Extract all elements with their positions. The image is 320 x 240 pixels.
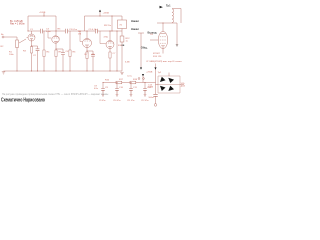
svg-text:С10 47м: С10 47м bbox=[113, 100, 121, 102]
svg-text:Rвх = 1 МОм: Rвх = 1 МОм bbox=[10, 23, 25, 26]
svg-text:R14 120: R14 120 bbox=[153, 56, 162, 58]
svg-text:Д226: Д226 bbox=[181, 86, 185, 88]
svg-text:Тр1: Тр1 bbox=[166, 4, 171, 8]
svg-text:100м: 100м bbox=[148, 97, 154, 99]
svg-text:R9 15к: R9 15к bbox=[104, 25, 111, 27]
svg-text:6,3В: 6,3В bbox=[125, 61, 130, 63]
svg-text:1М: 1М bbox=[78, 33, 81, 35]
svg-text:С12 47м: С12 47м bbox=[141, 100, 149, 102]
svg-text:На рисунке приведена принципиа: На рисунке приведена принципиальная схем… bbox=[2, 93, 108, 96]
svg-text:+185В: +185В bbox=[39, 12, 46, 14]
svg-text:0В: 0В bbox=[122, 45, 125, 47]
svg-text:С3 0,1м: С3 0,1м bbox=[69, 29, 77, 31]
svg-text:С11 47м: С11 47м bbox=[127, 100, 135, 102]
svg-text:Выход: Выход bbox=[148, 30, 157, 34]
svg-text:СГ-5ВМ(6П14П) имп. вар.01 схем: СГ-5ВМ(6П14П) имп. вар.01 схемы bbox=[146, 61, 182, 63]
svg-text:Общ.: Общ. bbox=[141, 45, 148, 49]
svg-text:1к: 1к bbox=[126, 40, 128, 42]
svg-text:Накал: Накал bbox=[131, 19, 139, 23]
svg-text:0,1м: 0,1м bbox=[46, 31, 51, 33]
svg-text:+255В: +255В bbox=[103, 13, 110, 15]
svg-text:С5 0,1м: С5 0,1м bbox=[89, 29, 97, 31]
svg-text:400В: 400В bbox=[148, 87, 154, 89]
svg-text:+250В: +250В bbox=[146, 72, 153, 74]
svg-text:6П14П: 6П14П bbox=[153, 53, 160, 55]
svg-text:Сеть: Сеть bbox=[127, 76, 133, 78]
svg-text:470к: 470к bbox=[104, 37, 109, 39]
svg-text:Накал: Накал bbox=[131, 27, 139, 31]
svg-text:47м: 47м bbox=[94, 88, 98, 90]
svg-text:100к: 100к bbox=[9, 54, 14, 56]
svg-text:Схематично Нарисовано: Схематично Нарисовано bbox=[1, 97, 45, 103]
svg-text:С9 47м: С9 47м bbox=[99, 100, 106, 102]
